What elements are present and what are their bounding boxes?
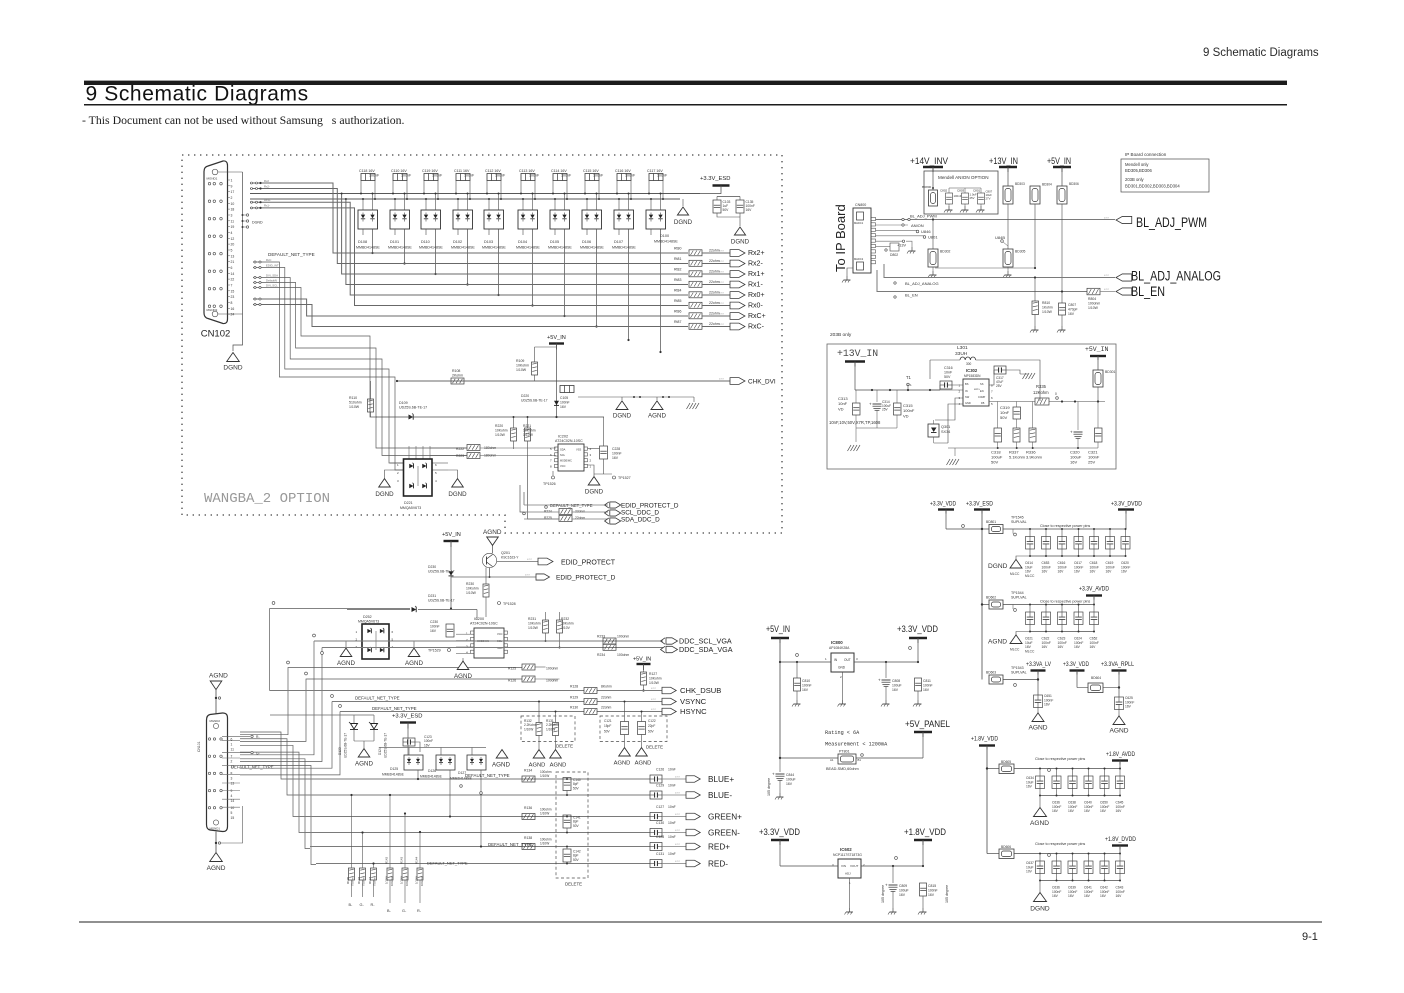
svg-text:2: 2 <box>231 760 233 764</box>
svg-text:VSYNC: VSYNC <box>680 697 707 706</box>
svg-text:300: 300 <box>966 362 972 366</box>
svg-text:C122: C122 <box>648 719 656 723</box>
svg-text:105 degree: 105 degree <box>767 778 771 796</box>
capacitor C802 <box>946 193 953 204</box>
svg-text:MMBD4148SE: MMBD4148SE <box>382 773 405 777</box>
svg-text:D102: D102 <box>453 240 462 244</box>
svg-text:100uF: 100uF <box>892 683 902 687</box>
capacitor C645 <box>1119 769 1121 777</box>
svg-text:18: 18 <box>231 208 235 212</box>
ground AGND (D252 left) <box>346 641 354 648</box>
svg-text:24: 24 <box>231 313 235 317</box>
svg-text:BLUE+: BLUE+ <box>708 775 734 784</box>
svg-text:WANGBA_2 OPTION: WANGBA_2 OPTION <box>204 491 330 507</box>
svg-text:10nF: 10nF <box>668 852 676 856</box>
wire RED- net <box>316 863 651 865</box>
svg-text:L301: L301 <box>957 345 968 351</box>
svg-text:C811: C811 <box>923 679 931 683</box>
diode array D103 MMBD4148SE <box>484 210 504 229</box>
wire staircase bundle <box>253 278 467 456</box>
svg-text:C808: C808 <box>892 679 900 683</box>
wire VSYNC net <box>332 701 584 703</box>
wire ESD rail (VGA) <box>407 737 409 755</box>
svg-text:R134: R134 <box>524 769 532 773</box>
grounds (IC602) <box>849 908 851 912</box>
svg-text:4707: 4707 <box>651 709 657 711</box>
svg-text:VIN: VIN <box>841 864 846 868</box>
svg-text:AGND: AGND <box>648 413 666 420</box>
svg-text:SW: SW <box>965 395 970 399</box>
svg-text:C114 16V: C114 16V <box>551 169 567 173</box>
svg-text:3.9Kohm: 3.9Kohm <box>1026 455 1043 460</box>
svg-text:SDA_DDC_D: SDA_DDC_D <box>621 517 660 524</box>
svg-text:OUT: OUT <box>844 658 851 662</box>
ground DGND (CN102) <box>227 353 240 362</box>
wire array drop <box>564 229 566 316</box>
wire video net riser <box>240 745 298 816</box>
svg-text:+: + <box>885 883 888 888</box>
svg-text:16V: 16V <box>1084 809 1091 813</box>
node SCL_DDC_D <box>610 510 621 516</box>
svg-text:16: 16 <box>231 307 235 311</box>
svg-text:AT24C02N-10SC: AT24C02N-10SC <box>555 439 583 443</box>
svg-text:4707: 4707 <box>675 793 681 795</box>
svg-text:C116 16V: C116 16V <box>615 169 631 173</box>
wire array drop <box>404 229 406 264</box>
svg-text:16V: 16V <box>1100 894 1107 898</box>
svg-text:DGND: DGND <box>448 491 467 498</box>
svg-text:ANION: ANION <box>911 223 924 228</box>
svg-text:+14V_INV: +14V_INV <box>910 156 949 167</box>
svg-text:+1.8V_VDD: +1.8V_VDD <box>971 736 998 743</box>
svg-text:D101: D101 <box>390 240 399 244</box>
svg-text:1: 1 <box>231 742 233 746</box>
svg-text:510ohm: 510ohm <box>349 401 362 405</box>
resistor R132 2.2Kohm (DELETE) <box>521 716 575 742</box>
svg-text:+3.3V_AVDD: +3.3V_AVDD <box>1079 586 1109 593</box>
svg-text:CN102: CN102 <box>201 329 231 340</box>
capacitor C638 <box>1072 769 1074 777</box>
ground (C844) <box>779 793 781 797</box>
label R- stub <box>222 735 250 737</box>
wire U846 net <box>876 229 918 231</box>
svg-text:Rx1-: Rx1- <box>748 282 763 289</box>
svg-text:100uF: 100uF <box>899 888 909 892</box>
svg-text:Rx1+: Rx1+ <box>264 198 271 202</box>
wire 13V rail <box>855 389 940 391</box>
svg-text:TP1544: TP1544 <box>1011 591 1024 595</box>
svg-text:C128: C128 <box>656 835 664 839</box>
wire 203B ground rail <box>856 427 897 429</box>
wire video net riser <box>240 766 316 865</box>
svg-text:7: 7 <box>231 284 233 288</box>
wire net RxC- <box>363 326 688 328</box>
svg-text:CN800: CN800 <box>855 203 866 207</box>
svg-text:5: 5 <box>231 811 233 815</box>
svg-text:10Kohm: 10Kohm <box>516 364 529 368</box>
capacitor C642 <box>1104 854 1106 862</box>
diode array D100 MMBD4148SE <box>646 210 666 229</box>
svg-text:C105: C105 <box>560 396 568 400</box>
node BL_EN <box>1116 288 1132 295</box>
wire panel rail <box>780 757 838 759</box>
svg-text:4707: 4707 <box>719 282 725 284</box>
svg-text:UDZ5S.6B-TE-17: UDZ5S.6B-TE-17 <box>344 733 348 758</box>
svg-text:AGND: AGND <box>483 529 502 536</box>
svg-text:22ohm: 22ohm <box>601 706 612 710</box>
svg-text:SX34: SX34 <box>941 430 950 434</box>
svg-text:16V: 16V <box>1090 645 1097 649</box>
wire GREEN- net <box>304 832 651 834</box>
svg-text:D107: D107 <box>614 240 623 244</box>
svg-text:4707: 4707 <box>675 861 681 863</box>
svg-text:MMBD4148SE: MMBD4148SE <box>388 246 412 250</box>
svg-text:12: 12 <box>231 237 235 241</box>
svg-text:KSC1623-Y: KSC1623-Y <box>501 556 519 560</box>
diode array D101 MMBD4148SE <box>390 210 410 229</box>
svg-text:AGND: AGND <box>209 673 228 680</box>
capacitor C614 <box>1029 529 1031 537</box>
svg-text:BD604: BD604 <box>1091 676 1101 680</box>
ground DGND (ESD caps) <box>734 227 745 235</box>
svg-text:BD305: BD305 <box>1015 250 1025 254</box>
capacitor C625 100nF <box>1115 697 1124 710</box>
svg-text:16V: 16V <box>1068 894 1075 898</box>
svg-text:10nF: 10nF <box>668 805 676 809</box>
svg-text:DEFAULT_NET_TYPE: DEFAULT_NET_TYPE <box>268 252 315 257</box>
ground (C317) <box>1023 373 1027 379</box>
svg-text:9 Schematic Diagrams: 9 Schematic Diagrams <box>86 83 309 106</box>
svg-text:C118 16V: C118 16V <box>359 169 375 173</box>
svg-text:50V: 50V <box>648 729 655 733</box>
svg-text:19: 19 <box>231 225 235 229</box>
ground AGND (C625) <box>1113 716 1125 725</box>
ground AGND (C122) <box>636 748 648 756</box>
Mendell ANION OPTION group <box>924 171 998 214</box>
ground AGND (CN101 bottom) <box>210 853 223 862</box>
svg-text:U84B: U84B <box>995 235 1005 240</box>
svg-text:R224: R224 <box>544 510 552 514</box>
svg-text:C844: C844 <box>786 773 794 777</box>
svg-text:25V: 25V <box>1088 460 1095 465</box>
capacitor C317 47uF <box>994 366 1006 374</box>
svg-text:BL_ADJ_ANALOG: BL_ADJ_ANALOG <box>1131 269 1221 284</box>
diode array D221 MMQA5V6T3 <box>404 459 433 496</box>
svg-text:GREEN-: GREEN- <box>708 828 740 837</box>
ground DGND (D221 right) <box>448 470 458 478</box>
svg-text:T1: T1 <box>906 375 912 380</box>
svg-text:D108: D108 <box>358 240 367 244</box>
svg-text:16V: 16V <box>1084 894 1091 898</box>
svg-text:Rx2-: Rx2- <box>264 184 270 188</box>
diode array D126 MMBD4148SE <box>436 755 455 770</box>
wire DDC_SDA_VGA net <box>322 647 663 649</box>
svg-text:DELETE: DELETE <box>646 745 663 750</box>
svg-text:BD306: BD306 <box>1069 182 1079 186</box>
svg-text:16V: 16V <box>923 688 930 692</box>
svg-text:DGND: DGND <box>375 491 394 498</box>
svg-text:D110: D110 <box>421 240 430 244</box>
svg-text:25V: 25V <box>970 196 975 200</box>
svg-text:1Kohm: 1Kohm <box>1042 306 1053 310</box>
wire HSYNC riser <box>240 712 340 775</box>
svg-text:+1.8V_VDD: +1.8V_VDD <box>904 827 946 837</box>
capacitor C652 <box>1093 605 1095 613</box>
svg-text:9: 9 <box>231 789 233 793</box>
svg-text:R804: R804 <box>1088 297 1096 301</box>
capacitor C639 <box>1072 854 1074 862</box>
svg-text:MMQA5V6T3: MMQA5V6T3 <box>358 620 379 624</box>
capacitor C636 <box>1056 769 1058 777</box>
svg-text:+5V_IN: +5V_IN <box>1085 346 1109 353</box>
svg-text:203B only: 203B only <box>830 332 852 338</box>
svg-text:1/10W: 1/10W <box>349 405 360 409</box>
capacitor C135 100nF <box>736 200 744 213</box>
svg-text:100ohm: 100ohm <box>617 653 629 657</box>
svg-text:MGND1: MGND1 <box>210 827 221 831</box>
svg-text:10: 10 <box>231 202 235 206</box>
svg-text:D221: D221 <box>404 501 413 505</box>
bead BD800 <box>929 190 938 206</box>
svg-text:MMBD4148SE: MMBD4148SE <box>482 246 506 250</box>
svg-text:Rx0-: Rx0- <box>748 303 763 310</box>
svg-text:+3.3V_VDD: +3.3V_VDD <box>897 624 938 634</box>
ground AGND (C121) <box>619 748 631 756</box>
wire staircase bundle <box>253 268 403 464</box>
transistor Q201 KSC1623-Y <box>482 553 496 567</box>
svg-text:BL_EN: BL_EN <box>905 293 918 298</box>
wire caps to ground <box>717 213 740 226</box>
svg-text:4707: 4707 <box>719 261 725 263</box>
svg-text:RxC-: RxC- <box>748 324 765 331</box>
svg-text:SUPLVAL: SUPLVAL <box>1011 596 1027 600</box>
svg-text:B1: B1 <box>858 758 862 762</box>
svg-text:1/10W: 1/10W <box>649 681 660 685</box>
svg-text:MMBD4148SE: MMBD4148SE <box>580 246 604 250</box>
svg-text:MLCC: MLCC <box>1025 649 1035 653</box>
svg-text:100nF: 100nF <box>560 400 570 404</box>
wire BL_ADJ_ANALOG net <box>884 264 1115 278</box>
wire IC800 rail <box>780 661 831 663</box>
svg-text:C802: C802 <box>940 189 948 193</box>
svg-text:22ohm: 22ohm <box>601 696 612 700</box>
svg-text:DGND: DGND <box>674 219 693 226</box>
svg-text:4707: 4707 <box>1104 275 1110 277</box>
wire CHK_DSUB riser <box>269 609 271 691</box>
svg-text:10Kohm: 10Kohm <box>561 622 574 626</box>
svg-text:+: + <box>1070 430 1073 435</box>
svg-text:8Kohm: 8Kohm <box>601 685 612 689</box>
ground (BD302) <box>932 267 934 271</box>
svg-text:TP1526: TP1526 <box>543 482 556 486</box>
svg-text:C809: C809 <box>899 884 907 888</box>
svg-text:R136: R136 <box>524 806 532 810</box>
svg-text:50V: 50V <box>991 460 998 465</box>
svg-text:BD801: BD801 <box>986 520 996 524</box>
wire HSYNC net <box>340 711 584 713</box>
wire net RxC+ <box>359 315 688 317</box>
svg-text:R125: R125 <box>508 667 516 671</box>
wire array drop <box>498 229 500 295</box>
capacitor C121 15pF (DELETE) <box>600 716 667 742</box>
wire R125 net riser <box>240 668 522 735</box>
wire +13V net <box>876 240 904 242</box>
svg-text:C801: C801 <box>973 189 981 193</box>
node DDC_SCL_VGA <box>666 638 678 644</box>
ground AGND (IC200) <box>462 658 464 661</box>
dotted border WANGBA_2 OPTION region <box>182 155 782 533</box>
wire net Rx2- <box>250 189 688 264</box>
wire ANION net <box>876 224 909 226</box>
svg-text:14: 14 <box>231 272 235 276</box>
svg-text:9-1: 9-1 <box>1302 931 1318 943</box>
svg-text:NCP1117ST18T3G: NCP1117ST18T3G <box>833 853 862 857</box>
svg-text:BL_ADJ_ANALOG: BL_ADJ_ANALOG <box>905 281 939 286</box>
svg-text:R143: R143 <box>400 856 404 864</box>
node Rx2+ output <box>730 250 745 257</box>
svg-text:50V: 50V <box>573 858 580 862</box>
svg-text:EN: EN <box>980 389 984 393</box>
svg-text:C803: C803 <box>957 189 965 193</box>
capacitor C228 100nF <box>600 446 608 459</box>
svg-text:16V: 16V <box>1106 570 1113 574</box>
wire CN101 shell ground <box>215 832 217 852</box>
svg-text:4707: 4707 <box>675 814 681 816</box>
svg-text:+5V_IN: +5V_IN <box>547 335 566 341</box>
svg-text:16V: 16V <box>1042 645 1049 649</box>
svg-text:RED-: RED- <box>708 859 728 868</box>
svg-text:C117 16V: C117 16V <box>647 169 663 173</box>
svg-text:16V: 16V <box>1058 570 1065 574</box>
bead BD304 <box>1030 186 1040 204</box>
diode array D127 MMBD4148SE <box>467 755 486 770</box>
svg-text:16V: 16V <box>1042 570 1049 574</box>
node Rx0+ output <box>730 292 745 299</box>
svg-text:MGND2: MGND2 <box>210 719 221 723</box>
svg-text:VOUT: VOUT <box>850 864 859 868</box>
wire BL_ADJ_PWM net <box>876 219 1116 221</box>
resistor R336 3.9Kohm <box>1029 428 1036 442</box>
ground DGND (rail end) <box>682 199 684 206</box>
svg-text:AGND: AGND <box>355 761 373 768</box>
svg-text:25V: 25V <box>882 408 889 412</box>
svg-text:10Kohm: 10Kohm <box>466 587 479 591</box>
wire CHK_DVI net <box>397 380 730 382</box>
wire net Rx2+ <box>250 183 688 253</box>
svg-text:DGND: DGND <box>585 489 604 496</box>
svg-text:DGND: DGND <box>731 239 750 246</box>
wire array drop <box>596 229 598 327</box>
node VSYNC <box>662 698 676 704</box>
svg-text:AT24C02N-10SC: AT24C02N-10SC <box>470 622 498 626</box>
svg-text:4707: 4707 <box>719 293 725 295</box>
svg-text:105 degree: 105 degree <box>881 885 885 903</box>
wire staircase bundle <box>253 262 403 470</box>
testpoint TP1527 <box>613 476 616 479</box>
svg-text:4707: 4707 <box>651 688 657 690</box>
capacitor C621 <box>1029 605 1031 613</box>
svg-text:DEFAULT_NET_TYPE: DEFAULT_NET_TYPE <box>488 842 533 847</box>
svg-text:TP1528: TP1528 <box>503 602 516 606</box>
svg-text:12Kohm: 12Kohm <box>1033 390 1049 395</box>
node Rx1- output <box>730 281 745 288</box>
svg-text:MHDC2: MHDC2 <box>854 257 864 261</box>
svg-text:10nF: 10nF <box>668 821 676 825</box>
svg-text:UDZ5S.6B-TE-17: UDZ5S.6B-TE-17 <box>384 733 388 758</box>
ground (CN800) <box>846 276 848 280</box>
svg-text:105 degree: 105 degree <box>945 885 949 903</box>
svg-text:16V: 16V <box>1068 809 1075 813</box>
svg-text:VCC: VCC <box>497 632 503 636</box>
wire net Rx0- <box>250 208 688 306</box>
svg-text:10nF,10V,50V,X7R,TP,1608: 10nF,10V,50V,X7R,TP,1608 <box>829 420 881 425</box>
svg-text:AGND: AGND <box>614 761 631 767</box>
svg-text:4: 4 <box>231 231 233 235</box>
bead BD305 <box>1003 249 1013 267</box>
svg-text:Close to respective power pins: Close to respective power pins <box>1035 842 1085 846</box>
svg-text:50V: 50V <box>723 208 730 212</box>
node BL_ADJ_ANALOG <box>1116 274 1132 281</box>
svg-text:10Kohm: 10Kohm <box>649 677 662 681</box>
wire FB node <box>989 401 1035 403</box>
svg-text:MODE/WC: MODE/WC <box>560 460 572 463</box>
svg-text:AGND: AGND <box>207 865 226 872</box>
svg-text:+3.3V_ESD: +3.3V_ESD <box>392 714 422 720</box>
capacitor C141 8pF (DELETE column) <box>563 815 571 828</box>
svg-text:+: + <box>869 402 872 407</box>
node Rx2- output <box>730 260 745 267</box>
svg-text:4707: 4707 <box>651 699 657 701</box>
svg-text:16V: 16V <box>1052 809 1059 813</box>
svg-text:R220: R220 <box>495 424 503 428</box>
svg-text:BD301: BD301 <box>1105 370 1115 374</box>
svg-text:4707: 4707 <box>719 324 725 326</box>
svg-text:AGND: AGND <box>405 660 423 667</box>
svg-text:100ohm: 100ohm <box>1088 302 1100 306</box>
wire D221 nets <box>390 462 403 464</box>
ground (203B left) <box>848 445 852 451</box>
capacitor C622 <box>1045 605 1047 613</box>
svg-text:+3.3VA_LV: +3.3VA_LV <box>1026 661 1052 668</box>
svg-text:D123: D123 <box>338 747 342 755</box>
svg-text:PT801: PT801 <box>839 750 850 754</box>
svg-text:22ohm: 22ohm <box>575 510 585 514</box>
svg-text:Rt83: Rt83 <box>674 278 681 282</box>
svg-text:4707: 4707 <box>675 830 681 832</box>
node EDID_PROTECT_D (Q201) <box>536 574 550 580</box>
svg-text:R142: R142 <box>385 856 389 864</box>
node GREEN- <box>686 829 700 835</box>
ground AGND (eeprom) <box>651 401 663 410</box>
capacitor C810 100nF <box>796 662 798 678</box>
wire D123/D124 common <box>354 740 374 742</box>
wire net Rx1+ <box>342 194 688 275</box>
svg-text:Rx2-: Rx2- <box>748 261 763 268</box>
diode array D105 MMBD4148SE <box>550 210 570 229</box>
wire video net riser <box>240 752 304 832</box>
node RED- <box>686 860 700 866</box>
node RxC+ output <box>730 313 745 320</box>
svg-text:10nF: 10nF <box>668 835 676 839</box>
capacitor C809 100uF <box>892 866 894 883</box>
node DGND stub <box>246 214 248 216</box>
svg-text:Rt80: Rt80 <box>674 247 681 251</box>
svg-text:100nF: 100nF <box>928 888 938 892</box>
svg-text:IN: IN <box>965 389 968 393</box>
svg-text:3: 3 <box>231 777 233 781</box>
svg-text:16V: 16V <box>430 629 437 633</box>
ground DGND (1.8V DVDD bank) <box>1039 881 1041 894</box>
